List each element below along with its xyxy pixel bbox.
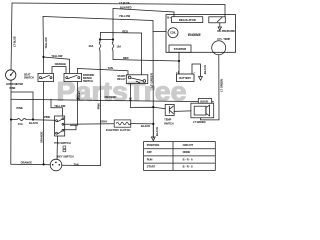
svg-text:PINK: PINK bbox=[44, 115, 50, 119]
svg-text:LT GREEN: LT GREEN bbox=[149, 73, 153, 87]
svg-text:LT BLUE: LT BLUE bbox=[13, 36, 17, 47]
svg-text:KEY SWITCH: KEY SWITCH bbox=[57, 154, 73, 158]
svg-text:LT GREEN: LT GREEN bbox=[193, 121, 206, 124]
svg-text:YELLOW: YELLOW bbox=[119, 14, 131, 18]
svg-text:ORANGE: ORANGE bbox=[105, 95, 117, 99]
svg-text:RED: RED bbox=[123, 56, 129, 60]
svg-text:REGULATOR: REGULATOR bbox=[179, 18, 196, 22]
svg-text:TAN: TAN bbox=[108, 66, 113, 70]
svg-text:ORANGE: ORANGE bbox=[21, 161, 33, 165]
svg-text:RUN: RUN bbox=[147, 157, 153, 161]
svg-text:CYL. TEMP: CYL. TEMP bbox=[217, 38, 230, 41]
svg-text:LT BLUE: LT BLUE bbox=[119, 1, 130, 5]
svg-text:15A: 15A bbox=[116, 45, 121, 49]
svg-text:PINK: PINK bbox=[10, 87, 16, 90]
svg-text:BLACK: BLACK bbox=[155, 127, 159, 136]
svg-text:RELAY: RELAY bbox=[117, 78, 126, 81]
svg-text:20A: 20A bbox=[89, 44, 94, 48]
svg-text:SWITCH: SWITCH bbox=[24, 76, 34, 79]
svg-text:ELECTRIC CLUTCH: ELECTRIC CLUTCH bbox=[106, 128, 130, 132]
svg-text:OIL PRESSURE: OIL PRESSURE bbox=[217, 30, 235, 33]
svg-text:SWITCH: SWITCH bbox=[83, 80, 93, 83]
svg-text:TEMP: TEMP bbox=[164, 118, 171, 121]
svg-text:GRAY: GRAY bbox=[100, 120, 108, 124]
svg-text:NONE: NONE bbox=[183, 150, 191, 154]
svg-text:B+: B+ bbox=[167, 15, 171, 19]
svg-text:START: START bbox=[147, 165, 156, 169]
svg-text:15A: 15A bbox=[18, 122, 23, 126]
svg-text:PINK: PINK bbox=[17, 106, 23, 110]
svg-text:BLACK: BLACK bbox=[141, 124, 150, 128]
svg-text:STARTER: STARTER bbox=[174, 47, 187, 51]
svg-text:ENGINE: ENGINE bbox=[188, 33, 201, 37]
svg-text:SWITCH: SWITCH bbox=[164, 122, 174, 125]
svg-text:CIRCUIT: CIRCUIT bbox=[183, 143, 194, 147]
svg-text:LT GREEN: LT GREEN bbox=[220, 79, 224, 92]
svg-text:TAN: TAN bbox=[74, 162, 79, 166]
svg-text:VIOLET: VIOLET bbox=[77, 91, 81, 101]
svg-text:COIL: COIL bbox=[170, 32, 176, 35]
svg-text:B - R - A: B - R - A bbox=[183, 157, 193, 161]
svg-text:B - R - S: B - R - S bbox=[183, 165, 193, 169]
svg-text:HOUR METER: HOUR METER bbox=[6, 83, 23, 86]
svg-text:BATTERY: BATTERY bbox=[179, 77, 191, 80]
svg-text:POSITION: POSITION bbox=[147, 143, 160, 147]
svg-text:BLACK: BLACK bbox=[203, 65, 207, 74]
svg-text:RED: RED bbox=[122, 30, 128, 34]
svg-text:YELLOW: YELLOW bbox=[44, 37, 48, 49]
svg-text:HOUR: HOUR bbox=[200, 99, 208, 103]
svg-text:BLACK: BLACK bbox=[29, 121, 38, 125]
svg-text:OFF: OFF bbox=[147, 150, 153, 154]
svg-text:YELLOW: YELLOW bbox=[54, 104, 66, 108]
svg-text:PINK: PINK bbox=[96, 103, 100, 109]
svg-text:PTO SWITCH: PTO SWITCH bbox=[54, 141, 70, 145]
svg-text:ORANGE: ORANGE bbox=[40, 131, 44, 143]
svg-text:BLK/RED: BLK/RED bbox=[120, 5, 132, 9]
svg-text:ORANGE: ORANGE bbox=[55, 62, 67, 66]
svg-text:YELLOW: YELLOW bbox=[51, 54, 63, 58]
